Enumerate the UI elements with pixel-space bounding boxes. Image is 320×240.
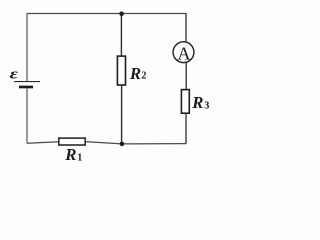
svg-text:R: R [64, 145, 76, 164]
wire: middle vertical lower segment (R2 down to bottom junction) [121, 85, 123, 144]
svg-text:1: 1 [77, 152, 82, 163]
battery EMF source (cell): short thick negative plate [19, 86, 33, 89]
svg-text:ε: ε [10, 65, 19, 82]
wire: top horizontal from left corner to right corner [27, 13, 186, 15]
resistor R3 (vertical box on right branch) [181, 90, 189, 114]
wire: left vertical lower segment (battery down to bottom-left corner) [26, 88, 28, 143]
resistor R2 (vertical box on middle branch) [117, 56, 125, 85]
svg-text:R: R [191, 93, 203, 112]
svg-text:3: 3 [204, 101, 209, 112]
svg-text:R: R [129, 64, 141, 83]
junction node: dot at top wire / middle branch [119, 11, 124, 16]
wire: bottom horizontal (bottom-left corner to bottom-right corner, through R1) [27, 142, 186, 144]
svg-text:A: A [177, 43, 190, 63]
resistor R1 (horizontal box on bottom wire) [59, 138, 85, 145]
wire: right vertical middle segment (ammeter down to R3) [185, 62, 187, 89]
junction node: dot at bottom wire / middle branch [120, 142, 125, 147]
wire: middle vertical upper segment (top junction down to R2) [120, 14, 122, 57]
wire: right vertical upper segment (top-right corner down to ammeter) [185, 13, 187, 42]
svg-text:2: 2 [141, 71, 146, 82]
wire: right vertical lower segment (R3 down to bottom-right corner) [185, 113, 187, 143]
ammeter A (circle meter symbol) [173, 42, 194, 63]
wire: left vertical upper segment (top-left corner down to battery) [26, 13, 28, 81]
battery EMF source (cell): long thin positive plate [14, 81, 40, 83]
